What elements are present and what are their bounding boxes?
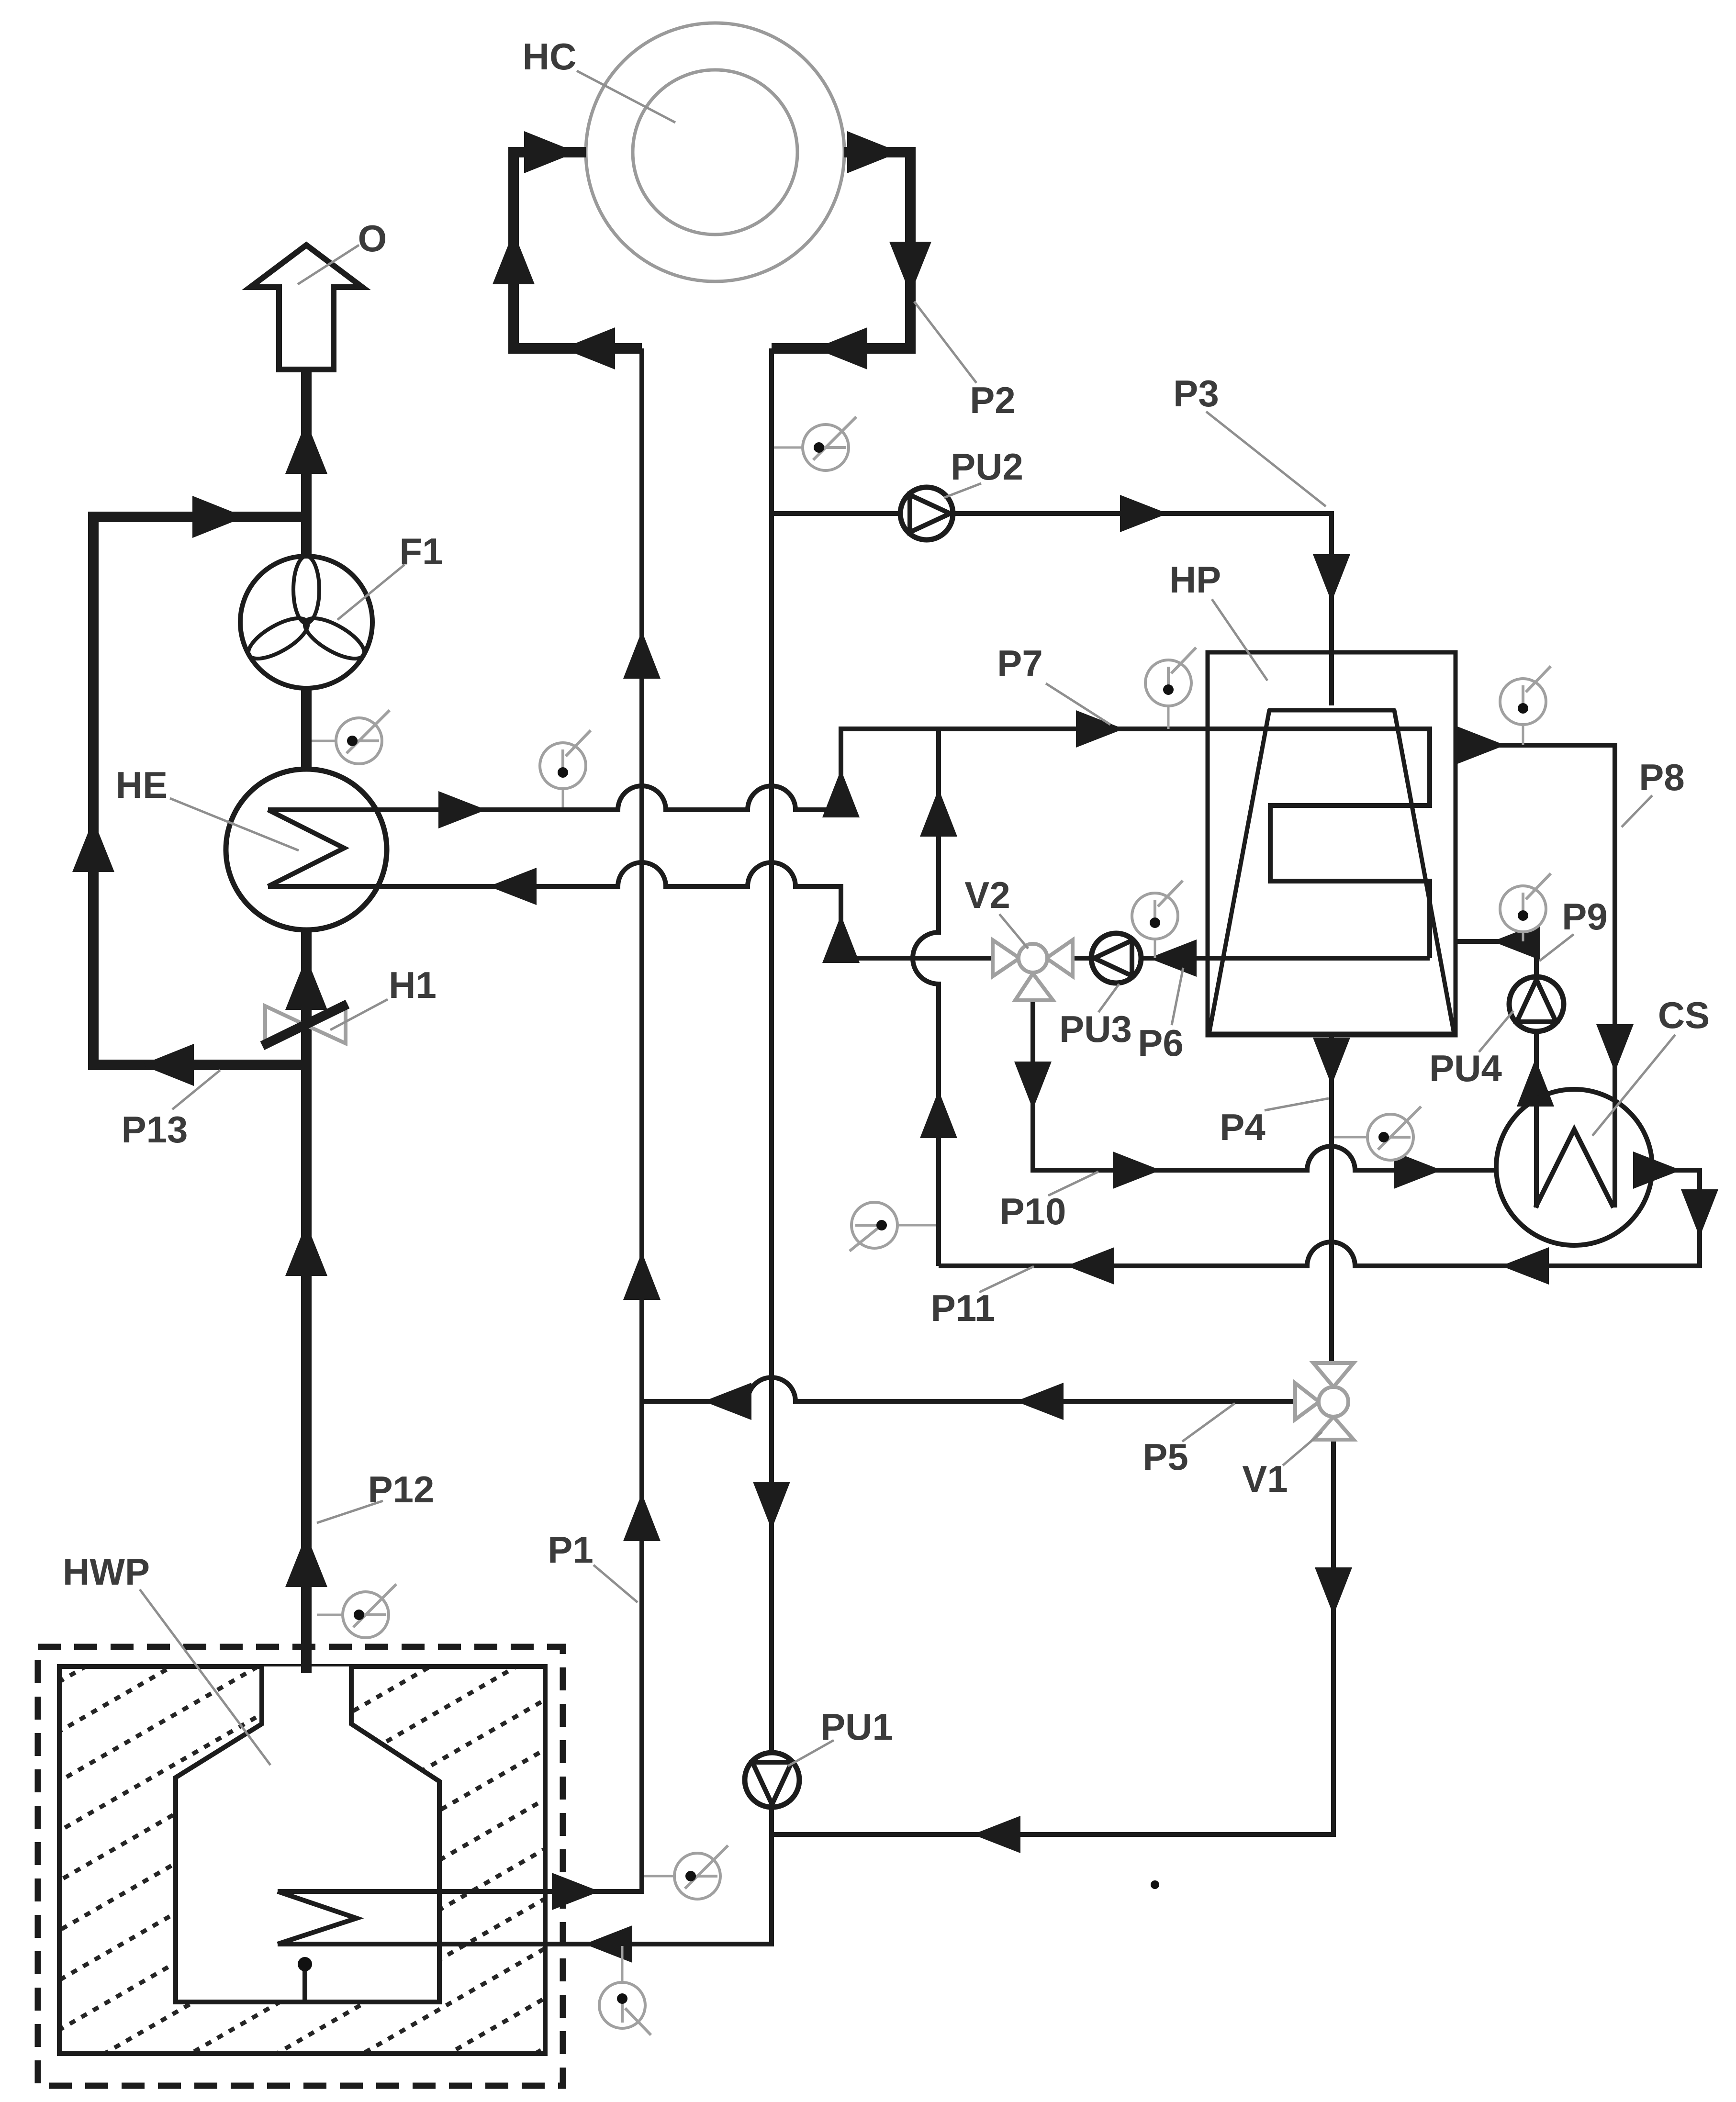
condenser source CS circle with W coil <box>1496 1089 1652 1245</box>
svg-text:PU1: PU1 <box>820 1706 893 1748</box>
svg-text:P10: P10 <box>1000 1190 1066 1232</box>
wire HC loop right vertical <box>905 147 916 354</box>
gauge on pipe P8 <box>1522 725 1524 745</box>
wire HC loop left vertical <box>508 147 519 354</box>
outlet O block arrow <box>250 245 362 369</box>
svg-text:P2: P2 <box>970 379 1015 421</box>
pipe P6 from HP via PU3 and V2 back to HE <box>268 862 1430 958</box>
leader line to PU1 <box>788 1740 834 1766</box>
svg-text:HWP: HWP <box>63 1551 150 1593</box>
svg-text:PU4: PU4 <box>1429 1047 1502 1089</box>
leader line to P6 <box>1172 968 1183 1025</box>
leader line to P10 <box>1048 1172 1098 1196</box>
pipe P3 from HC return via PU2 to HP top <box>772 514 1332 705</box>
leader line to HP <box>1212 599 1267 681</box>
pipe P9 from CS via PU4 to HP <box>1456 941 1536 1208</box>
valve V2 three-way <box>993 940 1019 976</box>
wire HC loop return right horizontal <box>844 147 910 157</box>
leader line to H1 <box>330 999 388 1030</box>
leader line to P7 <box>1046 683 1110 725</box>
wire P13 recirculation loop <box>93 517 306 1065</box>
svg-text:PU2: PU2 <box>951 446 1023 488</box>
heat pump HP box <box>1208 652 1456 1035</box>
svg-text:P5: P5 <box>1142 1436 1188 1478</box>
svg-text:H1: H1 <box>389 964 437 1006</box>
svg-text:P12: P12 <box>368 1468 435 1510</box>
pump PU2 <box>900 487 953 540</box>
pipe P11 riser with hop over P6 <box>913 729 939 1266</box>
svg-text:P1: P1 <box>548 1529 593 1571</box>
leader line to PU2 <box>944 483 981 498</box>
gauge on pipe P6 <box>1154 939 1156 958</box>
wire HC loop bottom-left horizontal <box>514 343 642 354</box>
gauge on HC return <box>774 447 826 449</box>
tank coil zigzag <box>278 1891 357 1944</box>
leader line to HE <box>170 798 299 850</box>
HWP dashed enclosure <box>38 1647 563 2086</box>
valve H1 <box>265 1006 305 1043</box>
pipe P7 evaporator supply from HE to HP serpentine <box>268 729 1430 958</box>
tank temperature probe <box>302 1964 307 2002</box>
svg-text:P7: P7 <box>997 642 1042 684</box>
fan F1 <box>240 556 372 688</box>
pipe P4 from HP bottom to valve V1 <box>1329 1035 1334 1381</box>
leader line to CS <box>1592 1035 1675 1136</box>
leader line to P8 <box>1622 795 1652 827</box>
gauge on pipe P4 <box>1334 1136 1390 1139</box>
wire exhaust pipe O to F1 <box>301 369 312 556</box>
leader line to P11 <box>979 1266 1034 1292</box>
svg-text:V2: V2 <box>964 874 1010 916</box>
leader line to HWP <box>140 1589 270 1765</box>
svg-text:P6: P6 <box>1138 1022 1183 1064</box>
leader line to P13 <box>172 1070 220 1109</box>
leader line to O <box>298 245 359 284</box>
leader line to P5 <box>1182 1403 1235 1442</box>
leader line to HC <box>577 71 675 123</box>
svg-text:P13: P13 <box>122 1108 188 1151</box>
gauge on P11 riser <box>897 1224 936 1227</box>
pump PU4 <box>1509 977 1564 1031</box>
wire HC loop bottom-right horizontal <box>772 343 910 354</box>
pipe HC return down through PU1 to tank coil <box>278 348 772 1944</box>
leader line to V2 <box>999 914 1028 949</box>
svg-text:P3: P3 <box>1173 372 1219 414</box>
leader line to PU3 <box>1098 984 1119 1012</box>
leader line to P9 <box>1539 934 1574 961</box>
HWP inner vessel <box>176 1666 439 2002</box>
wire pipe F1 to HE <box>301 688 312 771</box>
wire HC loop supply left <box>514 147 586 157</box>
pipe from V1 down and left to PU1 suction <box>772 1441 1333 1834</box>
HWP tank hatched body <box>59 1666 545 2054</box>
gauge on pipe P7 <box>562 789 564 807</box>
gauge on tank return <box>621 1946 624 1982</box>
pump PU3 <box>1091 933 1141 983</box>
HC heating circuit double circle <box>586 23 844 281</box>
gauge on pipe P1 <box>644 1875 697 1878</box>
svg-text:HP: HP <box>1169 559 1221 601</box>
svg-text:HE: HE <box>116 764 168 806</box>
leader line to P12 <box>317 1501 383 1523</box>
svg-text:P9: P9 <box>1562 895 1607 938</box>
svg-text:P4: P4 <box>1220 1106 1265 1148</box>
gauge on pipe P12 <box>317 1614 366 1616</box>
svg-text:P8: P8 <box>1639 756 1684 798</box>
pipe P5 from V1 to P1 riser <box>642 1377 1293 1401</box>
leader line to P2 <box>914 302 976 383</box>
pipe P8 from HP to CS <box>1456 745 1615 1208</box>
pipe P11 return from CS to riser <box>939 1170 1700 1266</box>
leader line to P4 <box>1265 1098 1329 1110</box>
HP compressor trapezoid <box>1209 710 1454 1034</box>
leader line to V1 <box>1283 1432 1322 1465</box>
svg-text:F1: F1 <box>399 530 443 572</box>
pipe P1 riser from HWP tank coil to HC <box>278 348 642 1891</box>
leader line to P3 <box>1206 412 1326 506</box>
wire pipe HE down through H1 and P12 to tank <box>301 930 312 1673</box>
gauge at HP inlet P7 <box>1167 706 1170 729</box>
pipe P10 from valve V2 to CS <box>1033 998 1496 1170</box>
svg-text:PU3: PU3 <box>1059 1008 1132 1050</box>
valve V1 three-way <box>1313 1363 1354 1387</box>
gauge on pipe P9 <box>1522 932 1524 941</box>
gauge on pipe F1-HE <box>312 740 359 742</box>
svg-text:V1: V1 <box>1242 1458 1288 1500</box>
leader line to P1 <box>594 1565 638 1602</box>
leader line to F1 <box>337 565 404 620</box>
pump PU1 <box>745 1753 799 1807</box>
svg-text:CS: CS <box>1658 994 1710 1036</box>
svg-text:P11: P11 <box>931 1287 995 1329</box>
svg-text:HC: HC <box>523 35 577 78</box>
svg-text:O: O <box>358 217 387 259</box>
leader line to PU4 <box>1479 1011 1513 1052</box>
stray dot <box>1151 1880 1159 1889</box>
heat exchanger HE circle with zigzag <box>226 769 387 930</box>
